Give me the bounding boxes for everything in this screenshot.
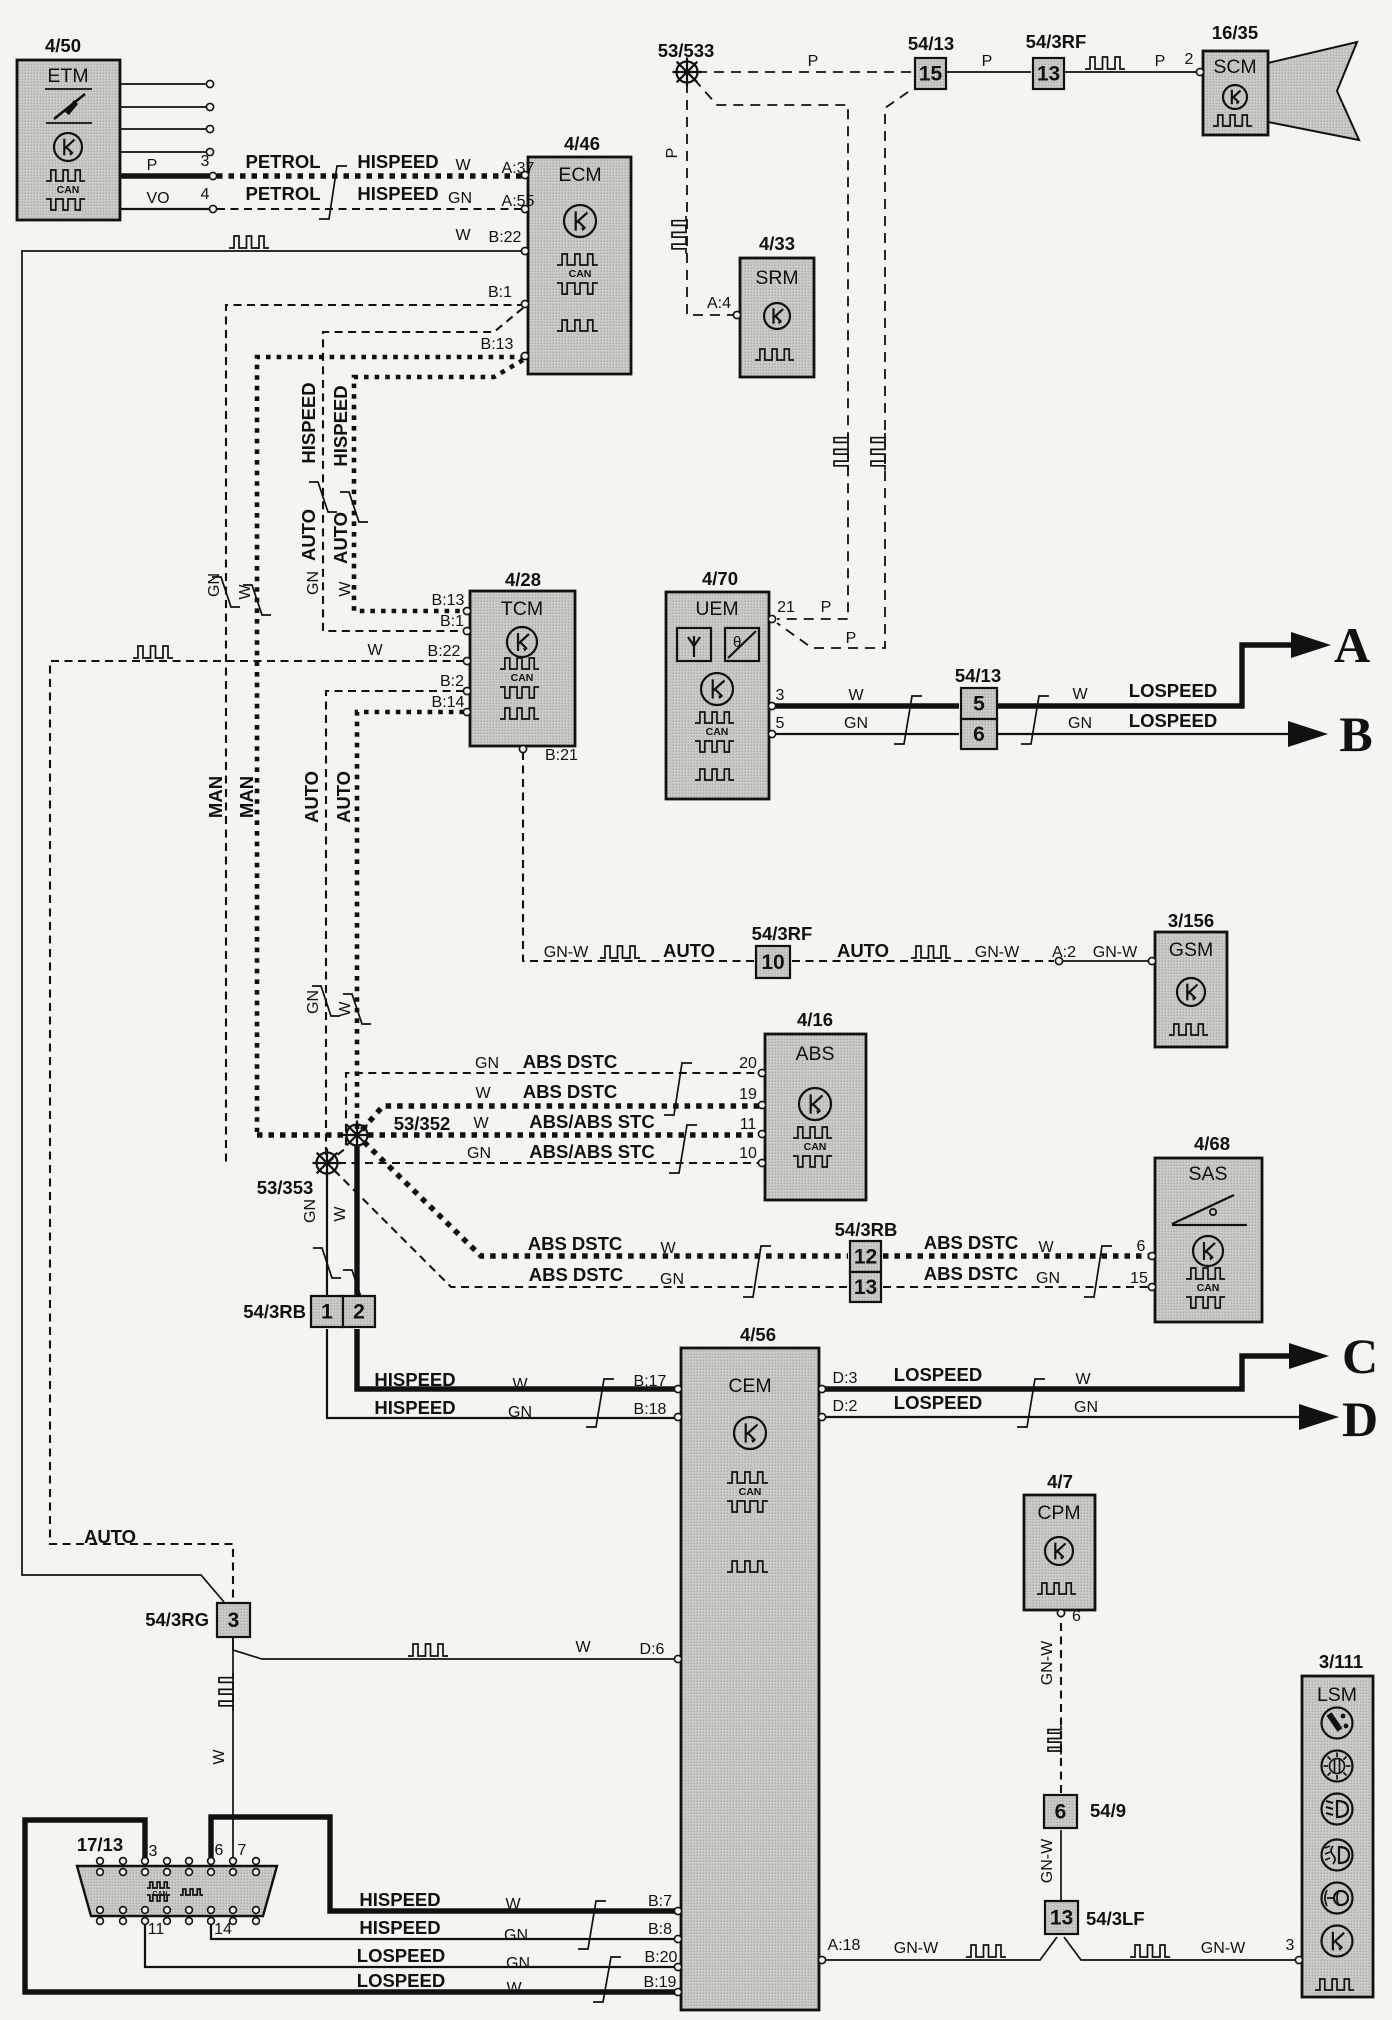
svg-text:P: P [147,157,158,174]
svg-text:C: C [1342,1328,1378,1384]
svg-text:W: W [1072,686,1088,703]
svg-text:MAN: MAN [236,776,257,818]
svg-text:GN-W: GN-W [544,944,589,961]
svg-text:HISPEED: HISPEED [357,151,438,172]
svg-text:AUTO: AUTO [333,771,354,823]
svg-text:B:18: B:18 [634,1401,667,1418]
svg-text:54/3RB: 54/3RB [835,1219,898,1240]
svg-text:B:14: B:14 [432,694,465,711]
svg-text:B:19: B:19 [644,1974,677,1991]
svg-text:P: P [846,630,857,647]
svg-text:54/13: 54/13 [955,665,1001,686]
svg-text:P: P [982,53,993,70]
svg-text:HISPEED: HISPEED [374,1397,455,1418]
svg-text:LOSPEED: LOSPEED [894,1364,982,1385]
svg-text:AUTO: AUTO [330,512,351,564]
svg-text:3: 3 [228,1609,240,1632]
svg-text:5: 5 [973,693,985,716]
svg-text:4/28: 4/28 [505,569,541,590]
svg-text:54/13: 54/13 [908,33,954,54]
svg-text:A:4: A:4 [707,295,731,312]
svg-text:3: 3 [1286,1937,1295,1954]
svg-text:4/7: 4/7 [1047,1471,1073,1492]
svg-text:53/352: 53/352 [394,1113,451,1134]
svg-text:UEM: UEM [695,598,738,620]
svg-text:W: W [211,1749,228,1765]
svg-text:CAN: CAN [569,268,592,280]
svg-text:54/3RB: 54/3RB [243,1301,306,1322]
svg-text:HISPEED: HISPEED [359,1917,440,1938]
svg-text:6: 6 [973,723,985,746]
svg-text:GN: GN [504,1927,528,1944]
svg-text:AUTO: AUTO [663,940,715,961]
svg-text:P: P [664,148,681,159]
svg-text:LOSPEED: LOSPEED [1129,680,1217,701]
svg-text:ABS DSTC: ABS DSTC [523,1051,618,1072]
svg-text:CAN: CAN [706,726,729,738]
svg-text:GN: GN [506,1955,530,1972]
svg-text:W: W [575,1639,591,1656]
svg-text:P: P [808,53,819,70]
svg-text:W: W [455,227,471,244]
svg-text:3: 3 [201,153,210,170]
svg-text:A: A [1334,617,1370,673]
svg-text:W: W [848,687,864,704]
svg-text:B:1: B:1 [488,284,512,301]
svg-text:A:18: A:18 [828,1937,861,1954]
svg-text:ABS DSTC: ABS DSTC [924,1232,1019,1253]
svg-text:GN-W: GN-W [1039,1640,1056,1685]
svg-text:ABS/ABS STC: ABS/ABS STC [529,1141,654,1162]
svg-text:4/33: 4/33 [759,233,795,254]
svg-text:W: W [660,1240,676,1257]
svg-text:13: 13 [1050,1907,1073,1930]
svg-text:W: W [332,1206,349,1222]
svg-text:W: W [475,1085,491,1102]
svg-text:CAN: CAN [57,184,80,196]
svg-text:AUTO: AUTO [298,509,319,561]
svg-text:W: W [512,1376,528,1393]
svg-text:15: 15 [1130,1270,1148,1287]
svg-text:ECM: ECM [558,164,601,186]
svg-text:1: 1 [321,1301,333,1324]
svg-text:ABS DSTC: ABS DSTC [529,1264,624,1285]
svg-text:SAS: SAS [1188,1163,1227,1185]
svg-text:ABS DSTC: ABS DSTC [924,1263,1019,1284]
svg-text:B:8: B:8 [648,1921,672,1938]
svg-text:B:1: B:1 [440,613,464,630]
svg-text:HISPEED: HISPEED [359,1889,440,1910]
svg-text:LSM: LSM [1317,1684,1357,1706]
svg-text:D:6: D:6 [640,1641,665,1658]
svg-text:LOSPEED: LOSPEED [357,1945,445,1966]
svg-text:W: W [337,581,354,597]
svg-text:ETM: ETM [47,65,88,87]
svg-text:AUTO: AUTO [837,940,889,961]
svg-text:CEM: CEM [728,1375,771,1397]
svg-text:16/35: 16/35 [1212,22,1258,43]
svg-text:W: W [506,1980,522,1997]
svg-text:54/3LF: 54/3LF [1086,1908,1145,1929]
svg-text:CAN: CAN [804,1141,827,1153]
svg-text:TCM: TCM [501,598,543,620]
svg-text:3: 3 [149,1843,158,1860]
svg-text:4/46: 4/46 [564,133,600,154]
svg-text:4/50: 4/50 [45,35,81,56]
svg-text:CAN: CAN [511,672,534,684]
svg-text:5: 5 [776,715,785,732]
svg-text:HISPEED: HISPEED [298,382,319,463]
svg-text:B:22: B:22 [428,643,461,660]
svg-text:P: P [1155,53,1166,70]
svg-text:CPM: CPM [1037,1502,1080,1524]
svg-text:53/533: 53/533 [658,40,715,61]
svg-text:B:22: B:22 [489,229,522,246]
svg-text:6: 6 [1055,1801,1067,1824]
svg-text:MAN: MAN [205,776,226,818]
svg-text:B:13: B:13 [481,336,514,353]
svg-text:2: 2 [1185,51,1194,68]
svg-text:D:3: D:3 [833,1370,858,1387]
svg-text:4: 4 [201,186,210,203]
svg-text:AUTO: AUTO [301,771,322,823]
svg-text:4/68: 4/68 [1194,1133,1230,1154]
svg-text:W: W [337,1001,354,1017]
svg-text:ABS/ABS STC: ABS/ABS STC [529,1111,654,1132]
svg-text:2: 2 [353,1301,365,1324]
svg-text:PETROL: PETROL [245,183,320,204]
svg-text:GN: GN [305,571,322,595]
svg-text:7: 7 [238,1842,247,1859]
svg-text:11: 11 [148,1921,165,1938]
svg-text:HISPEED: HISPEED [330,385,351,466]
svg-text:W: W [455,157,471,174]
svg-text:15: 15 [919,63,943,86]
svg-text:13: 13 [854,1276,877,1299]
svg-text:D: D [1342,1391,1378,1447]
svg-text:10: 10 [761,951,784,974]
svg-text:3/111: 3/111 [1319,1651,1363,1672]
svg-text:CAN: CAN [739,1486,762,1498]
svg-text:6: 6 [215,1842,224,1859]
svg-text:GN: GN [302,1199,319,1223]
svg-text:W: W [237,584,254,600]
svg-text:LOSPEED: LOSPEED [1129,710,1217,731]
svg-text:B:7: B:7 [648,1893,672,1910]
svg-text:W: W [473,1115,489,1132]
svg-text:B:17: B:17 [634,1373,667,1390]
svg-text:GN: GN [467,1145,491,1162]
svg-text:VO: VO [146,190,169,207]
svg-text:GN: GN [1036,1270,1060,1287]
svg-text:AUTO: AUTO [84,1526,136,1547]
svg-text:GN-W: GN-W [1039,1838,1056,1883]
svg-text:ABS DSTC: ABS DSTC [528,1233,623,1254]
svg-text:4/16: 4/16 [797,1009,833,1030]
svg-text:3: 3 [776,687,785,704]
svg-text:53/353: 53/353 [257,1177,314,1198]
svg-text:LOSPEED: LOSPEED [357,1970,445,1991]
svg-text:6: 6 [1137,1238,1146,1255]
svg-text:GN: GN [1068,715,1092,732]
svg-text:GN: GN [1074,1399,1098,1416]
svg-text:W: W [367,642,383,659]
svg-text:GN: GN [844,715,868,732]
svg-text:A:2: A:2 [1052,944,1076,961]
svg-text:54/3RF: 54/3RF [752,923,813,944]
svg-text:B:21: B:21 [545,747,578,764]
svg-text:B:20: B:20 [645,1949,678,1966]
svg-text:GN: GN [206,573,223,597]
svg-text:GN-W: GN-W [1093,944,1138,961]
svg-text:P: P [821,599,832,616]
svg-text:W: W [1038,1239,1054,1256]
svg-text:GN: GN [475,1055,499,1072]
svg-text:B: B [1339,706,1372,762]
svg-text:GN: GN [660,1271,684,1288]
svg-text:4/56: 4/56 [740,1324,776,1345]
svg-text:10: 10 [739,1145,757,1162]
svg-text:19: 19 [739,1086,757,1103]
svg-text:D:2: D:2 [833,1398,858,1415]
svg-text:HISPEED: HISPEED [374,1369,455,1390]
svg-text:54/9: 54/9 [1090,1800,1126,1821]
svg-text:11: 11 [740,1116,757,1133]
svg-text:B:2: B:2 [440,673,464,690]
svg-text:54/3RF: 54/3RF [1026,31,1087,52]
svg-text:3/156: 3/156 [1168,910,1214,931]
svg-text:GN: GN [305,990,322,1014]
svg-text:6: 6 [1072,1608,1081,1625]
svg-text:A:37: A:37 [502,160,535,177]
svg-text:GN: GN [508,1404,532,1421]
svg-text:ABS: ABS [795,1043,834,1065]
svg-text:B:13: B:13 [432,592,465,609]
svg-text:CAN: CAN [1197,1282,1220,1294]
svg-text:GN-W: GN-W [975,944,1020,961]
svg-text:SRM: SRM [755,267,798,289]
svg-text:GN: GN [448,190,472,207]
svg-text:20: 20 [739,1055,757,1072]
svg-text:ABS DSTC: ABS DSTC [523,1081,618,1102]
svg-text:LOSPEED: LOSPEED [894,1392,982,1413]
svg-text:4/70: 4/70 [702,568,738,589]
svg-text:HISPEED: HISPEED [357,183,438,204]
svg-text:PETROL: PETROL [245,151,320,172]
svg-text:54/3RG: 54/3RG [145,1609,209,1630]
svg-text:14: 14 [214,1921,232,1938]
svg-text:SCM: SCM [1213,56,1256,78]
svg-text:12: 12 [854,1246,877,1269]
svg-text:21: 21 [777,599,795,616]
svg-text:GSM: GSM [1169,939,1213,961]
svg-text:GN-W: GN-W [894,1940,939,1957]
svg-text:17/13: 17/13 [77,1834,123,1855]
svg-text:W: W [505,1896,521,1913]
svg-text:GN-W: GN-W [1201,1940,1246,1957]
svg-text:A:55: A:55 [502,193,535,210]
svg-text:W: W [1075,1371,1091,1388]
svg-text:13: 13 [1037,63,1060,86]
